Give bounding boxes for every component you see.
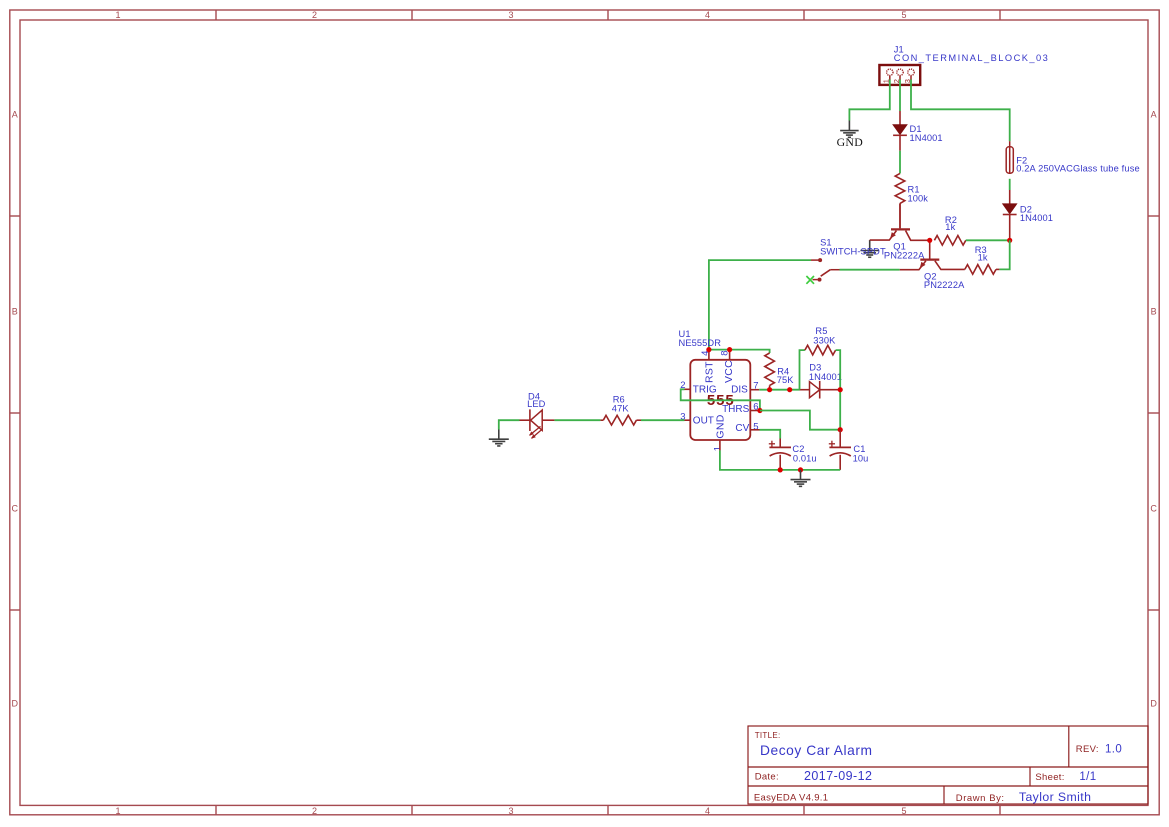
svg-text:Drawn By:: Drawn By: (956, 793, 1005, 804)
U1 pin1 lead GND (719, 440, 721, 450)
wire pin7 to D3 (759, 389, 799, 391)
svg-text:3: 3 (508, 10, 513, 20)
junction pin4 (706, 347, 711, 352)
junction D3 cathode (838, 387, 843, 392)
svg-text:4: 4 (705, 10, 710, 20)
svg-text:VCC: VCC (723, 360, 735, 383)
svg-text:TRIG: TRIG (693, 384, 717, 395)
svg-text:1: 1 (115, 806, 120, 816)
svg-text:D: D (11, 699, 18, 709)
wire TRIG loop pin2 to pin6 (685, 388, 691, 390)
junction Q1 collector / Q2 base (927, 238, 932, 243)
wire S1 top throw to U1 pin4 (709, 260, 811, 350)
transistor Q1 PN2222A (891, 228, 910, 230)
svg-text:TITLE:: TITLE: (755, 731, 781, 740)
svg-text:1k: 1k (945, 222, 955, 232)
junction node D2/R2/R3 (1007, 238, 1012, 243)
svg-text:REV:: REV: (1076, 744, 1099, 755)
wire R6 to D4 (554, 419, 600, 421)
capacitor C1 10u (839, 430, 841, 448)
svg-text:Decoy Car Alarm: Decoy Car Alarm (760, 743, 873, 758)
svg-text:1k: 1k (978, 252, 988, 262)
wire OUT to R6 (641, 419, 685, 421)
U1 pin3 lead OUT (685, 419, 691, 421)
svg-text:330K: 330K (813, 335, 836, 345)
svg-text:A: A (1151, 110, 1157, 120)
svg-text:47K: 47K (612, 403, 630, 413)
diode D4 LED (542, 419, 554, 421)
wire F2 to D2 (1009, 179, 1011, 190)
wire R5 right to C1 node (836, 350, 841, 430)
svg-text:D3: D3 (809, 362, 821, 372)
svg-text:OUT: OUT (693, 416, 714, 427)
svg-text:EasyEDA V4.9.1: EasyEDA V4.9.1 (754, 793, 828, 804)
ground at Q1 emitter (869, 239, 871, 242)
svg-text:75K: 75K (777, 375, 795, 385)
wire VCC rail over U1 (709, 350, 770, 353)
svg-text:1N4001: 1N4001 (809, 372, 842, 382)
ground at bottom rail (791, 470, 811, 486)
wire D1 to R1 (899, 151, 901, 174)
svg-text:Sheet:: Sheet: (1035, 772, 1064, 783)
svg-text:100k: 100k (908, 193, 929, 203)
svg-text:A: A (12, 110, 18, 120)
no-connect X on S1 (806, 276, 814, 284)
svg-text:2017-09-12: 2017-09-12 (804, 769, 872, 783)
svg-text:GND: GND (715, 414, 727, 438)
resistor R4 75K (765, 353, 775, 385)
U1 pin6 lead THRS (750, 410, 760, 412)
svg-text:4: 4 (705, 806, 710, 816)
op-amp U1 NE555DR body (690, 360, 750, 440)
resistor R6 47K (636, 419, 641, 421)
wire pin6 to C1 (760, 411, 840, 430)
svg-text:NE555DR: NE555DR (679, 338, 722, 348)
wire pin5 to C2 (760, 430, 781, 439)
ground GND near J1 (840, 121, 859, 138)
svg-text:5: 5 (753, 421, 758, 432)
D4 LED arrows (530, 426, 541, 435)
resistor R2 1k (934, 236, 965, 246)
U1 pin7 lead DIS (750, 389, 759, 391)
junction R4 bottom (767, 387, 772, 392)
S1 common pin (830, 269, 839, 271)
svg-text:B: B (1151, 307, 1157, 317)
svg-text:PN2222A: PN2222A (884, 250, 925, 260)
svg-text:Date:: Date: (755, 772, 779, 783)
svg-text:2: 2 (312, 806, 317, 816)
diode D1 1N4001 (899, 111, 901, 125)
svg-text:THRS: THRS (722, 404, 750, 415)
svg-text:1.0: 1.0 (1105, 743, 1122, 755)
svg-text:DIS: DIS (731, 384, 748, 395)
svg-text:0.2A 250VACGlass tube fuse: 0.2A 250VACGlass tube fuse (1016, 164, 1140, 174)
connector J1 CON_TERMINAL_BLOCK_03 (879, 65, 920, 85)
wire pin1 to ground rail (720, 450, 840, 470)
svg-text:C: C (1150, 504, 1157, 514)
svg-text:RST: RST (703, 361, 715, 383)
diode D2 1N4001 (1009, 190, 1011, 204)
svg-text:SWITCH-SPDT: SWITCH-SPDT (820, 247, 886, 257)
svg-text:B: B (12, 307, 18, 317)
capacitor C2 0.01u (779, 439, 781, 448)
S1 lever (821, 270, 831, 277)
svg-text:Taylor Smith: Taylor Smith (1019, 790, 1091, 804)
U1 pin4 lead (708, 350, 710, 360)
svg-text:D: D (1150, 699, 1157, 709)
svg-text:LED: LED (527, 399, 546, 409)
resistor R5 330K (800, 350, 805, 390)
junction pin8 (727, 347, 732, 352)
fuse F2 (1009, 141, 1011, 173)
junction wire joint (787, 387, 792, 392)
svg-text:5: 5 (901, 10, 906, 20)
svg-text:1N4001: 1N4001 (910, 133, 943, 143)
svg-text:1N4001: 1N4001 (1020, 213, 1053, 223)
wire R3 to node (996, 268, 999, 270)
U1 pin8 lead (729, 350, 731, 360)
wire J1 pin3 to F2 (911, 80, 1010, 142)
junction C1 top (838, 427, 843, 432)
junction ground rail (798, 467, 803, 472)
title block (748, 726, 1148, 804)
wire J1 pin2 to D1 (899, 80, 901, 112)
wire J1 pin1 to GND (849, 80, 889, 121)
svg-text:1/1: 1/1 (1079, 771, 1096, 783)
ground at D4 (489, 430, 509, 446)
svg-text:0.01u: 0.01u (793, 454, 817, 464)
S1 throw pin bottom (813, 279, 818, 281)
svg-text:PN2222A: PN2222A (924, 280, 965, 290)
wire D4 to ground (499, 420, 520, 429)
svg-text:CON_TERMINAL_BLOCK_03: CON_TERMINAL_BLOCK_03 (894, 53, 1050, 63)
diode D3 1N4001 (800, 389, 810, 391)
resistor R3 1k (965, 265, 996, 275)
svg-text:GND: GND (837, 135, 864, 149)
junction pin6 (757, 408, 762, 413)
transistor Q2 PN2222A (929, 240, 931, 258)
svg-text:1: 1 (712, 446, 723, 452)
wire R1 to Q1 base (899, 203, 901, 228)
wire R2 to node (966, 239, 1010, 241)
svg-text:CV: CV (735, 423, 749, 434)
U1 pin5 lead CV (750, 429, 759, 431)
svg-text:C: C (11, 504, 18, 514)
svg-text:10u: 10u (853, 454, 869, 464)
S1 throw pin top (811, 259, 819, 261)
wire S1 common to Q2 emitter (840, 269, 900, 271)
svg-text:3: 3 (508, 806, 513, 816)
svg-text:2: 2 (312, 10, 317, 20)
resistor R1 100k (895, 173, 905, 203)
svg-text:1: 1 (115, 10, 120, 20)
junction C2 bottom (778, 467, 783, 472)
svg-text:5: 5 (901, 806, 906, 816)
